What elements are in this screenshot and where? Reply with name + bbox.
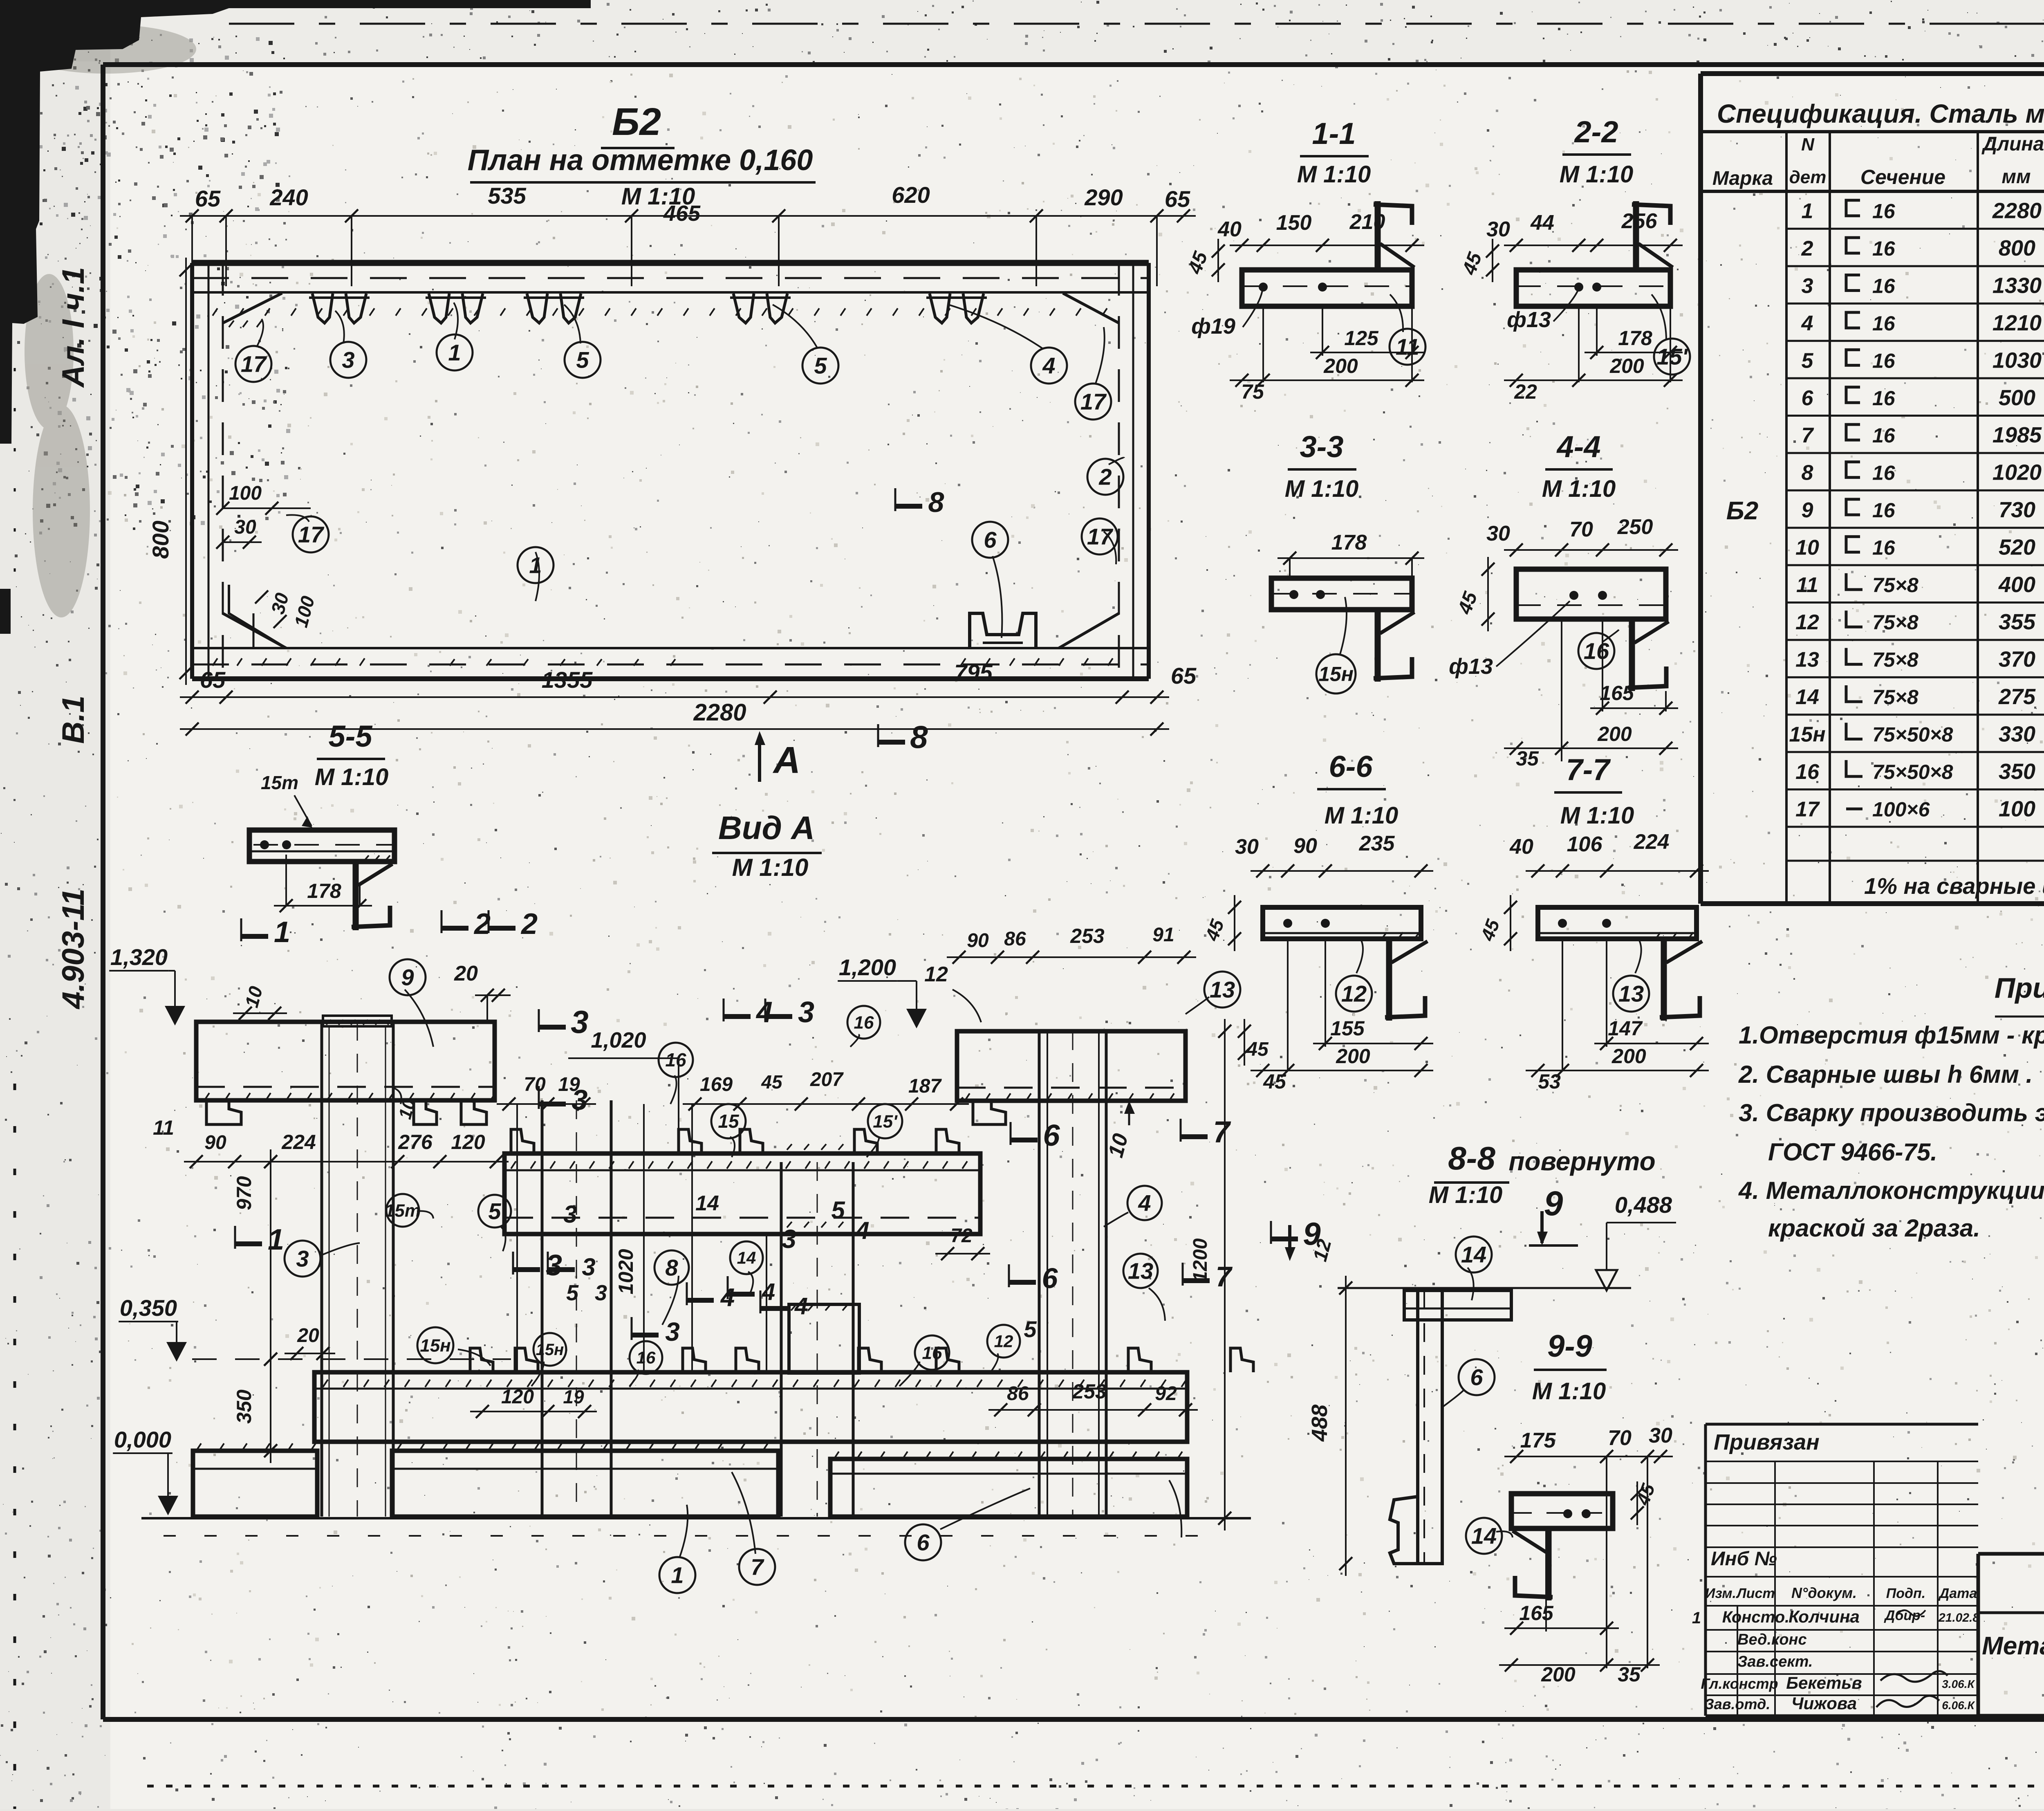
svg-text:30: 30 (1649, 1424, 1672, 1447)
svg-text:1: 1 (448, 340, 461, 366)
svg-text:75×50×8: 75×50×8 (1872, 723, 1953, 746)
svg-text:15т: 15т (261, 772, 298, 793)
svg-text:План на отметке 0,160: План на отметке 0,160 (468, 144, 813, 177)
svg-text:4.903-11: 4.903-11 (56, 889, 91, 1010)
svg-text:5: 5 (576, 347, 589, 373)
svg-text:14: 14 (737, 1248, 756, 1268)
svg-text:207: 207 (810, 1069, 844, 1091)
svg-text:1: 1 (268, 1223, 284, 1256)
svg-text:800: 800 (148, 521, 173, 559)
svg-text:165: 165 (1600, 682, 1634, 705)
svg-text:Инб №: Инб № (1711, 1548, 1777, 1570)
svg-text:Дата: Дата (1938, 1586, 1977, 1601)
svg-text:250: 250 (1617, 515, 1653, 539)
svg-text:75×8: 75×8 (1872, 686, 1918, 709)
svg-text:Марка: Марка (1712, 168, 1773, 189)
svg-text:350: 350 (233, 1389, 255, 1424)
svg-text:N: N (1801, 135, 1815, 155)
svg-text:16: 16 (1872, 387, 1896, 410)
svg-text:14: 14 (695, 1192, 719, 1215)
svg-text:М 1:10: М 1:10 (1285, 476, 1359, 502)
svg-text:1330: 1330 (1992, 274, 2042, 298)
svg-text:15н: 15н (536, 1341, 564, 1359)
svg-text:1985: 1985 (1992, 423, 2042, 447)
svg-text:3. Сварку производить электрод: 3. Сварку производить электродами УОНИИ-… (1739, 1099, 2044, 1127)
svg-text:200: 200 (1609, 355, 1644, 377)
svg-text:Гл.констр: Гл.констр (1701, 1675, 1778, 1692)
svg-text:7: 7 (751, 1554, 764, 1580)
svg-text:М 1:10: М 1:10 (1560, 802, 1634, 829)
svg-text:7: 7 (1216, 1261, 1233, 1293)
svg-text:6-6: 6-6 (1329, 750, 1373, 783)
svg-text:45: 45 (761, 1071, 783, 1093)
svg-text:3.06.К: 3.06.К (1942, 1678, 1975, 1690)
svg-text:5: 5 (1024, 1316, 1037, 1342)
svg-text:100: 100 (229, 482, 262, 504)
svg-text:35: 35 (1516, 747, 1539, 770)
svg-text:1: 1 (274, 916, 290, 949)
svg-text:6: 6 (984, 527, 997, 553)
svg-text:повернуто: повернуто (1508, 1147, 1655, 1176)
svg-text:106: 106 (1567, 833, 1603, 856)
svg-text:N°докум.: N°докум. (1791, 1584, 1857, 1601)
svg-text:Изм.: Изм. (1705, 1586, 1736, 1601)
svg-text:15: 15 (718, 1111, 740, 1132)
svg-text:20: 20 (454, 962, 478, 985)
svg-text:4-4: 4-4 (1556, 430, 1601, 464)
svg-text:Чижова: Чижова (1791, 1694, 1857, 1713)
svg-text:5: 5 (1802, 349, 1814, 373)
svg-text:200: 200 (1597, 723, 1632, 745)
svg-text:16: 16 (1872, 462, 1896, 485)
svg-text:Б2: Б2 (612, 100, 661, 144)
svg-text:16: 16 (1872, 424, 1896, 447)
svg-text:200: 200 (1611, 1045, 1646, 1068)
svg-text:795: 795 (954, 660, 993, 685)
svg-text:А: А (773, 739, 800, 781)
svg-text:16: 16 (1872, 237, 1896, 260)
svg-text:520: 520 (1999, 535, 2035, 559)
svg-text:8: 8 (1802, 461, 1813, 485)
svg-text:Сечение: Сечение (1860, 166, 1945, 189)
svg-text:мм: мм (2001, 166, 2031, 188)
svg-text:17: 17 (241, 351, 267, 377)
svg-text:400: 400 (1998, 572, 2035, 597)
svg-text:1210: 1210 (1992, 311, 2042, 335)
svg-text:1% на сварные швы: 1% на сварные швы (1864, 873, 2044, 899)
svg-text:330: 330 (1999, 722, 2035, 746)
svg-text:Металлоконструкция: Металлоконструкция (1982, 1632, 2044, 1660)
svg-text:970: 970 (233, 1176, 255, 1210)
svg-text:4: 4 (855, 1217, 869, 1244)
svg-text:2: 2 (1098, 464, 1112, 490)
svg-text:465: 465 (663, 201, 701, 226)
svg-text:11: 11 (153, 1116, 174, 1139)
svg-text:16: 16 (665, 1049, 686, 1070)
svg-text:3: 3 (798, 996, 814, 1029)
svg-text:М 1:10: М 1:10 (1542, 476, 1616, 502)
svg-text:65: 65 (200, 667, 226, 693)
svg-text:75: 75 (1241, 380, 1264, 403)
svg-text:16: 16 (1872, 536, 1896, 559)
svg-text:М 1:10: М 1:10 (1297, 161, 1371, 188)
svg-text:120: 120 (501, 1386, 534, 1408)
svg-text:178: 178 (1331, 531, 1367, 554)
svg-text:4: 4 (794, 1293, 808, 1320)
svg-text:200: 200 (1541, 1663, 1576, 1686)
svg-text:253: 253 (1070, 925, 1105, 947)
svg-text:5: 5 (814, 353, 827, 379)
svg-text:90: 90 (967, 930, 989, 952)
svg-text:1: 1 (1692, 1609, 1701, 1627)
svg-text:1,020: 1,020 (591, 1028, 646, 1052)
svg-text:72: 72 (950, 1225, 973, 1247)
svg-text:1-1: 1-1 (1312, 117, 1356, 150)
svg-text:3: 3 (563, 1201, 577, 1228)
svg-text:4: 4 (1801, 312, 1813, 335)
svg-text:Примечания:: Примечания: (1995, 972, 2044, 1004)
svg-text:0,488: 0,488 (1615, 1192, 1672, 1218)
svg-text:2280: 2280 (1992, 199, 2042, 223)
svg-text:Длина,: Длина, (1981, 133, 2044, 155)
svg-text:6: 6 (1043, 1118, 1060, 1152)
svg-text:8: 8 (910, 719, 928, 755)
svg-text:14: 14 (1795, 685, 1819, 709)
svg-text:100×6: 100×6 (1872, 798, 1930, 821)
svg-text:5: 5 (831, 1196, 845, 1224)
svg-text:11: 11 (1396, 334, 1419, 360)
svg-text:44: 44 (1530, 211, 1554, 235)
svg-text:20: 20 (297, 1325, 319, 1346)
svg-text:7: 7 (1802, 424, 1814, 447)
svg-text:Б2: Б2 (1726, 497, 1758, 525)
svg-text:256: 256 (1621, 209, 1658, 233)
svg-text:35: 35 (1618, 1663, 1641, 1686)
svg-text:краской за 2раза.: краской за 2раза. (1768, 1214, 1980, 1242)
svg-text:70: 70 (1569, 518, 1593, 541)
svg-text:12: 12 (994, 1332, 1013, 1351)
svg-text:М 1:10: М 1:10 (1325, 802, 1399, 829)
svg-text:1: 1 (529, 552, 542, 578)
svg-text:2280: 2280 (693, 699, 746, 726)
svg-text:210: 210 (1349, 210, 1385, 234)
svg-text:17: 17 (1795, 797, 1820, 821)
svg-text:65: 65 (1171, 663, 1197, 689)
svg-text:7: 7 (1213, 1115, 1231, 1149)
svg-text:6.06.К: 6.06.К (1942, 1699, 1975, 1712)
svg-text:4: 4 (1042, 353, 1055, 379)
svg-text:40: 40 (1217, 218, 1242, 241)
svg-text:90: 90 (1293, 834, 1317, 858)
svg-text:12: 12 (924, 963, 948, 986)
svg-text:3-3: 3-3 (1300, 430, 1344, 464)
svg-text:9-9: 9-9 (1547, 1329, 1592, 1364)
svg-text:290: 290 (1084, 184, 1123, 210)
svg-text:155: 155 (1330, 1017, 1365, 1040)
svg-text:Ал. I ч.1: Ал. I ч.1 (56, 267, 91, 388)
svg-text:13: 13 (1618, 981, 1644, 1007)
svg-text:3: 3 (595, 1281, 607, 1305)
svg-text:15': 15' (1656, 344, 1688, 370)
svg-text:1: 1 (1802, 200, 1813, 223)
svg-text:30: 30 (234, 516, 256, 538)
svg-text:дет: дет (1789, 167, 1827, 187)
svg-text:16: 16 (1795, 760, 1820, 784)
svg-text:620: 620 (892, 182, 930, 208)
svg-text:Колчина: Колчина (1788, 1607, 1860, 1626)
svg-text:8: 8 (928, 486, 944, 518)
svg-text:30: 30 (1486, 522, 1510, 545)
svg-text:3: 3 (1802, 274, 1813, 298)
svg-text:1030: 1030 (1992, 348, 2042, 373)
svg-text:1020: 1020 (1992, 460, 2042, 485)
svg-text:200: 200 (1336, 1045, 1370, 1068)
svg-text:175: 175 (1520, 1429, 1556, 1452)
svg-text:1: 1 (671, 1562, 684, 1588)
svg-text:16: 16 (854, 1012, 874, 1032)
svg-text:14: 14 (1461, 1242, 1486, 1268)
svg-text:7-7: 7-7 (1566, 753, 1611, 787)
svg-text:21.02.8: 21.02.8 (1938, 1611, 1979, 1625)
svg-text:М 1:10: М 1:10 (732, 854, 809, 881)
svg-text:253: 253 (1072, 1380, 1107, 1403)
svg-text:Подп.: Подп. (1886, 1586, 1925, 1601)
svg-text:2: 2 (520, 908, 538, 940)
svg-text:4. Металлоконструкции грунтова: 4. Металлоконструкции грунтовать и окрас… (1738, 1177, 2044, 1204)
svg-text:М 1:10: М 1:10 (1429, 1182, 1503, 1208)
svg-text:19: 19 (558, 1074, 580, 1095)
svg-text:15н: 15н (1318, 663, 1354, 686)
svg-text:75×8: 75×8 (1872, 649, 1918, 671)
svg-text:ф13: ф13 (1507, 307, 1551, 332)
svg-text:0,350: 0,350 (120, 1295, 177, 1321)
svg-text:125: 125 (1344, 327, 1379, 350)
svg-text:12: 12 (1341, 981, 1367, 1007)
svg-text:ф13: ф13 (1449, 654, 1493, 679)
svg-text:Вед.конс: Вед.конс (1737, 1631, 1807, 1648)
svg-text:16: 16 (922, 1343, 942, 1363)
svg-text:16: 16 (1872, 349, 1896, 372)
svg-text:8-8: 8-8 (1448, 1140, 1495, 1176)
svg-text:8: 8 (665, 1255, 678, 1281)
svg-text:100: 100 (1999, 797, 2035, 821)
svg-text:800: 800 (1999, 236, 2035, 260)
svg-text:17: 17 (298, 522, 325, 548)
svg-text:488: 488 (1307, 1405, 1332, 1442)
svg-text:ф19: ф19 (1191, 314, 1235, 339)
svg-text:Зав.отд.: Зав.отд. (1705, 1696, 1771, 1712)
svg-text:6: 6 (917, 1530, 930, 1555)
svg-text:1020: 1020 (614, 1249, 637, 1294)
svg-text:147: 147 (1608, 1017, 1643, 1040)
svg-text:1355: 1355 (542, 667, 593, 693)
svg-text:2. Сварные швы h 6мм .: 2. Сварные швы h 6мм . (1738, 1061, 2033, 1088)
svg-text:70: 70 (524, 1074, 546, 1095)
svg-text:1,320: 1,320 (110, 944, 168, 970)
svg-text:6: 6 (1042, 1262, 1058, 1294)
svg-text:187: 187 (908, 1075, 942, 1097)
svg-text:70: 70 (1608, 1426, 1632, 1450)
svg-text:92: 92 (1155, 1383, 1177, 1405)
svg-text:М 1:10: М 1:10 (1532, 1378, 1606, 1405)
svg-text:9: 9 (1544, 1184, 1563, 1223)
svg-text:75×8: 75×8 (1872, 574, 1918, 597)
svg-text:5: 5 (488, 1198, 501, 1224)
svg-text:200: 200 (1323, 355, 1358, 377)
svg-text:13: 13 (1128, 1258, 1153, 1284)
svg-text:90: 90 (204, 1132, 226, 1153)
svg-text:224: 224 (1634, 830, 1670, 854)
svg-text:3: 3 (665, 1317, 680, 1346)
svg-text:13: 13 (1210, 977, 1235, 1003)
svg-text:13: 13 (1795, 648, 1819, 672)
svg-text:65: 65 (195, 186, 221, 211)
svg-text:3: 3 (571, 1004, 588, 1040)
svg-text:500: 500 (1999, 386, 2035, 410)
svg-text:17: 17 (1087, 524, 1114, 550)
svg-text:730: 730 (1999, 498, 2035, 522)
svg-text:10: 10 (1795, 536, 1819, 559)
svg-text:11: 11 (1796, 573, 1818, 597)
svg-text:15т: 15т (385, 1201, 421, 1221)
svg-text:14: 14 (1471, 1523, 1497, 1549)
svg-text:120: 120 (451, 1131, 485, 1153)
svg-text:165: 165 (1519, 1602, 1554, 1625)
svg-text:16: 16 (637, 1348, 656, 1367)
svg-text:45: 45 (1263, 1070, 1286, 1093)
svg-text:М 1:10: М 1:10 (1560, 161, 1634, 188)
svg-text:6: 6 (1470, 1364, 1483, 1390)
svg-text:17: 17 (1080, 389, 1107, 415)
svg-text:355: 355 (1999, 610, 2036, 634)
svg-text:1200: 1200 (1190, 1238, 1211, 1282)
svg-text:65: 65 (1165, 186, 1190, 212)
svg-text:16: 16 (1872, 275, 1896, 298)
svg-text:0,000: 0,000 (114, 1427, 171, 1452)
svg-text:16: 16 (1584, 638, 1609, 664)
svg-text:В.1: В.1 (56, 696, 91, 744)
svg-text:235: 235 (1359, 832, 1395, 855)
svg-text:75×50×8: 75×50×8 (1872, 761, 1953, 783)
svg-text:3: 3 (342, 347, 354, 373)
svg-text:15н: 15н (1789, 723, 1825, 746)
svg-text:16: 16 (1872, 200, 1896, 223)
svg-text:9: 9 (1802, 498, 1813, 522)
svg-text:9: 9 (401, 965, 414, 990)
svg-text:Бекетьв: Бекетьв (1786, 1673, 1862, 1692)
svg-text:2-2: 2-2 (1574, 115, 1618, 149)
svg-text:12: 12 (1795, 610, 1819, 634)
svg-text:150: 150 (1276, 211, 1312, 235)
svg-text:5-5: 5-5 (329, 719, 373, 753)
svg-text:178: 178 (1618, 327, 1652, 350)
svg-text:Спецификация. Сталь марки ВСт3: Спецификация. Сталь марки ВСт3кп 2 ГОСТ … (1717, 99, 2044, 128)
svg-text:53: 53 (1538, 1070, 1561, 1093)
svg-text:240: 240 (269, 184, 308, 210)
svg-text:4: 4 (755, 996, 773, 1029)
svg-text:3: 3 (296, 1246, 309, 1272)
svg-text:М 1:10: М 1:10 (315, 764, 389, 790)
svg-text:Лист: Лист (1735, 1586, 1775, 1601)
svg-text:Зав.сект.: Зав.сект. (1737, 1653, 1813, 1670)
svg-text:86: 86 (1007, 1383, 1029, 1405)
svg-text:Вид А: Вид А (718, 810, 815, 846)
svg-text:30: 30 (1486, 218, 1510, 241)
svg-text:75×8: 75×8 (1872, 611, 1918, 634)
svg-text:22: 22 (1514, 380, 1537, 403)
svg-text:Привязан: Привязан (1714, 1430, 1820, 1454)
svg-text:178: 178 (307, 880, 341, 902)
svg-text:169: 169 (700, 1074, 733, 1095)
svg-text:16: 16 (1872, 312, 1896, 335)
svg-text:3: 3 (782, 1224, 796, 1254)
svg-text:350: 350 (1999, 759, 2035, 784)
svg-text:91: 91 (1152, 924, 1174, 946)
svg-text:3: 3 (582, 1253, 595, 1281)
svg-text:30: 30 (1235, 835, 1259, 859)
svg-text:1.Отверстия ф15мм - кроме огов: 1.Отверстия ф15мм - кроме оговоренных (1739, 1021, 2044, 1049)
svg-text:535: 535 (488, 183, 526, 209)
svg-text:19: 19 (563, 1386, 584, 1407)
svg-text:6: 6 (1802, 386, 1814, 410)
svg-text:276: 276 (398, 1131, 433, 1153)
svg-text:16: 16 (1872, 499, 1896, 522)
svg-text:40: 40 (1509, 835, 1533, 859)
svg-text:Консто.: Консто. (1722, 1608, 1790, 1626)
svg-text:275: 275 (1998, 684, 2036, 709)
svg-text:2: 2 (1801, 237, 1813, 260)
svg-text:224: 224 (281, 1131, 316, 1153)
svg-text:15н: 15н (420, 1335, 451, 1355)
svg-text:1,200: 1,200 (839, 954, 896, 980)
svg-text:86: 86 (1004, 928, 1026, 950)
svg-text:ГОСТ 9466-75.: ГОСТ 9466-75. (1768, 1138, 1937, 1166)
svg-text:370: 370 (1999, 647, 2035, 672)
svg-text:5: 5 (566, 1281, 579, 1305)
svg-text:15': 15' (873, 1111, 898, 1131)
svg-text:4: 4 (762, 1279, 775, 1305)
svg-text:4: 4 (1138, 1190, 1151, 1216)
